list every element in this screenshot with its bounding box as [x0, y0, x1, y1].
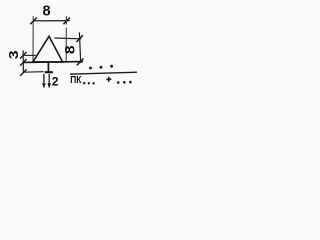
svg-text:ПК: ПК	[70, 74, 81, 86]
svg-text:8: 8	[63, 45, 78, 54]
svg-text:3: 3	[7, 50, 21, 59]
svg-text:2: 2	[52, 74, 59, 88]
svg-text:8: 8	[42, 4, 50, 20]
